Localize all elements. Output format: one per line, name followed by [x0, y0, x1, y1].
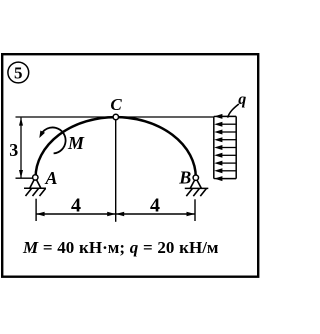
svg-text:4: 4	[150, 195, 160, 217]
svg-text:B: B	[178, 168, 191, 188]
svg-text:q: q	[238, 91, 246, 108]
support B triangle legs	[190, 180, 201, 188]
svg-text:C: C	[110, 95, 122, 114]
support B pin	[193, 175, 198, 180]
moment arrowhead	[39, 131, 45, 139]
hinge at C	[113, 114, 118, 119]
dim arrows at center	[107, 212, 116, 216]
center vertical line from C	[115, 120, 117, 222]
svg-text:M: M	[67, 133, 85, 153]
support A ground line	[24, 187, 46, 189]
svg-text:3: 3	[9, 140, 18, 160]
support B hatching	[186, 189, 206, 197]
support A pin	[33, 175, 38, 180]
svg-text:A: A	[44, 168, 57, 188]
support A hatching	[26, 189, 46, 197]
problem number circle 5	[8, 62, 29, 83]
svg-text:M = 40 кН·м; q = 20 кН/м: M = 40 кН·м; q = 20 кН/м	[22, 238, 219, 257]
moment arc M	[41, 127, 66, 153]
distributed load left edge	[213, 116, 215, 178]
support B ground line	[185, 187, 209, 189]
svg-text:4: 4	[71, 195, 81, 217]
arch (half ellipse)	[36, 117, 196, 177]
support A triangle legs	[30, 180, 41, 188]
dim arrow right end	[187, 212, 196, 216]
arrow up (dim 3 top)	[19, 118, 23, 126]
dim arrow left end	[36, 212, 45, 216]
left extension line	[35, 199, 37, 221]
tick at A level	[16, 177, 33, 179]
svg-text:5: 5	[14, 64, 23, 83]
arrow down (dim 3 bottom)	[19, 170, 23, 178]
border frame	[2, 54, 258, 277]
dimension 3 vertical line	[20, 118, 22, 178]
distributed load right edge	[235, 116, 237, 178]
q pointer curve	[228, 104, 239, 118]
bottom dimension line	[36, 213, 195, 215]
right extension line	[194, 199, 196, 221]
distributed load top edge	[214, 115, 236, 117]
distributed load bottom edge	[214, 178, 236, 180]
load arrows	[214, 114, 236, 181]
top reference line at crown level	[16, 116, 214, 118]
